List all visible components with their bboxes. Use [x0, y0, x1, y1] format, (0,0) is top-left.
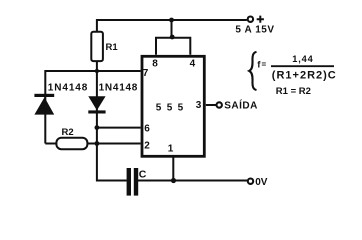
- svg-text:6: 6: [144, 123, 150, 134]
- svg-text:R1: R1: [106, 42, 119, 53]
- svg-text:1N4148: 1N4148: [99, 82, 139, 93]
- svg-text:SAÍDA: SAÍDA: [224, 99, 258, 112]
- svg-text:1,44: 1,44: [292, 54, 313, 64]
- svg-text:7: 7: [143, 68, 149, 79]
- svg-text:C: C: [139, 168, 147, 180]
- svg-text:0V: 0V: [255, 177, 268, 188]
- svg-text:4: 4: [190, 59, 196, 70]
- svg-text:2: 2: [144, 141, 150, 152]
- svg-text:R2: R2: [62, 127, 74, 138]
- svg-text:1: 1: [168, 143, 174, 154]
- svg-text:8: 8: [152, 59, 158, 70]
- svg-text:1N4148: 1N4148: [48, 82, 88, 93]
- svg-text:(R1+2R2)C: (R1+2R2)C: [272, 69, 337, 81]
- svg-text:3: 3: [196, 100, 202, 111]
- svg-text:5 A 15V: 5 A 15V: [235, 24, 274, 35]
- svg-text:=: =: [262, 60, 267, 69]
- svg-text:R1 = R2: R1 = R2: [276, 86, 311, 97]
- svg-text:5 5 5: 5 5 5: [156, 103, 185, 114]
